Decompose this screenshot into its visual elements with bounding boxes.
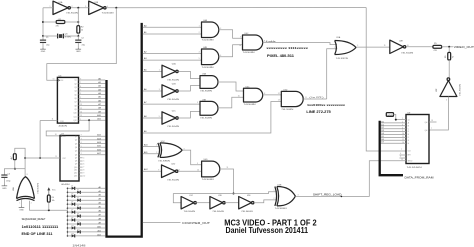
svg-text:A5: A5 <box>144 68 147 71</box>
wire U2F input from U9 <box>429 97 448 131</box>
wire net A12 to U2D <box>143 168 162 171</box>
net label DATA_FROM_RAM <box>405 177 434 180</box>
svg-text:A6: A6 <box>144 88 147 91</box>
svg-text:3: 3 <box>81 150 82 152</box>
svg-text:Q3: Q3 <box>74 87 76 89</box>
svg-text:9: 9 <box>80 79 81 81</box>
wire U3B out to U3C <box>218 95 244 108</box>
svg-text:6: 6 <box>80 86 81 88</box>
svg-text:47k: 47k <box>56 26 59 28</box>
svg-text:U2F: U2F <box>436 88 438 92</box>
svg-text:15: 15 <box>401 159 403 161</box>
svg-text:R6: R6 <box>445 56 447 58</box>
wire net A10 to U5C <box>143 144 160 147</box>
inverter U2A <box>162 63 180 82</box>
wire bus net D1 to U9 pin B <box>381 124 406 126</box>
svg-text:74LS166N: 74LS166N <box>407 167 423 169</box>
svg-text:U1D: U1D <box>218 195 222 197</box>
label PIXEL 480-511 <box>267 54 294 58</box>
svg-text:Q2: Q2 <box>74 83 76 85</box>
svg-text:Q8: Q8 <box>75 161 77 163</box>
svg-text:10: 10 <box>239 45 241 47</box>
svg-text:GND: GND <box>387 115 393 117</box>
svg-text:8: 8 <box>27 174 28 176</box>
and-gate U4C <box>239 33 265 54</box>
wire net A5 to U2A <box>143 68 162 71</box>
svg-text:C3: C3 <box>8 173 10 175</box>
wire SHIFT_REG_LOAD to U9 <box>341 159 406 196</box>
svg-text:DATA_FROM_RAM: DATA_FROM_RAM <box>405 177 434 180</box>
nand-gate U8A (74LS30 wide input) <box>12 174 39 201</box>
svg-text:Q13: Q13 <box>74 176 77 178</box>
svg-text:9: 9 <box>240 36 241 38</box>
wire reset net row <box>24 156 60 159</box>
svg-text:1: 1 <box>402 118 403 120</box>
wire bus net D0 to U9 pin A <box>381 121 406 123</box>
svg-text:SH/LD: SH/LD <box>408 161 414 163</box>
wire U1C out to U1D <box>196 202 210 204</box>
bus DATA_FROM_RAM <box>380 121 403 175</box>
svg-text:74LS86N: 74LS86N <box>275 208 288 210</box>
svg-text:U2B: U2B <box>172 83 177 85</box>
wire U2E out to R5 <box>406 46 432 48</box>
svg-text:U2E: U2E <box>399 40 404 42</box>
svg-text:14: 14 <box>80 111 82 113</box>
pin stub U9 QH output <box>429 120 437 122</box>
wire U6 Q8 to bus net A7 <box>79 103 106 106</box>
inverter U2D <box>162 164 180 182</box>
svg-text:LINE 272-275: LINE 272-275 <box>306 110 331 114</box>
wire net A1 to U4A <box>143 31 202 34</box>
ground GND C2 <box>76 48 82 53</box>
svg-text:R2: R2 <box>81 27 84 29</box>
diode D9 net A8 <box>67 217 106 221</box>
svg-text:1: 1 <box>20 202 21 204</box>
svg-text:Q4: Q4 <box>75 147 77 149</box>
wire R3 bottom <box>14 160 16 170</box>
svg-text:470: 470 <box>434 50 438 52</box>
wire U7 Q4 to bus net A15 <box>79 145 105 148</box>
svg-text:7: 7 <box>80 82 81 84</box>
svg-text:2: 2 <box>199 32 200 34</box>
svg-text:Q2: Q2 <box>75 140 77 142</box>
svg-text:3: 3 <box>159 89 160 91</box>
svg-text:ser: ser <box>408 119 411 121</box>
svg-text:13: 13 <box>278 100 280 102</box>
svg-text:H: H <box>408 143 410 145</box>
diode D7 net A6 <box>67 210 106 214</box>
svg-text:2: 2 <box>31 202 32 204</box>
diode D8 net A7 <box>67 213 106 217</box>
svg-text:D8: D8 <box>77 213 79 215</box>
svg-text:75: 75 <box>453 56 455 58</box>
pin stub U7 Q10 <box>79 167 84 169</box>
wire clock down right side to U9 CLK <box>366 8 406 152</box>
svg-text:Q7: Q7 <box>74 102 76 104</box>
wire U4D out down to delay tap <box>220 167 235 194</box>
pin stub U9 CLR <box>400 156 407 158</box>
wire U7 Q2 to bus net A13 <box>79 137 105 140</box>
svg-text:D4: D4 <box>77 198 79 200</box>
svg-text:9: 9 <box>197 163 198 165</box>
svg-text:7: 7 <box>83 167 84 169</box>
and-gate U3D <box>281 89 303 110</box>
wire delay chain top <box>173 190 277 194</box>
net label COUNTER_OUT <box>182 222 211 225</box>
svg-text:U1B: U1B <box>94 2 99 4</box>
and-gate U3C <box>244 86 266 106</box>
ground GND U8A input <box>19 206 25 211</box>
wire R6 to U2F <box>448 60 450 78</box>
svg-text:1k: 1k <box>81 30 83 32</box>
svg-text:Q4: Q4 <box>74 91 76 93</box>
svg-text:1xx0100xx xxxxxxxxx: 1xx0100xx xxxxxxxxx <box>307 103 345 107</box>
power symbol VCC pullup <box>47 187 56 195</box>
svg-text:Q5: Q5 <box>75 151 77 153</box>
svg-text:U3B: U3B <box>202 99 207 101</box>
shift register U9 (74LS166N) <box>406 113 429 169</box>
svg-text:11: 11 <box>402 136 404 138</box>
and-gate U4D <box>202 159 220 181</box>
svg-text:C: C <box>408 128 410 130</box>
wire C1 top <box>42 36 44 40</box>
svg-text:Q1: Q1 <box>75 136 77 138</box>
svg-text:D3: D3 <box>71 194 73 196</box>
wire U6 Q2 to bus net A1 <box>79 81 106 84</box>
diode D13 net A12 <box>67 233 106 237</box>
counter U6 (4040N) <box>57 75 78 127</box>
svg-text:Q12: Q12 <box>73 120 76 122</box>
inverter U1C <box>181 195 196 213</box>
wire U6 Q1 to bus net A0 <box>79 77 106 80</box>
inverter U2B <box>162 83 180 101</box>
svg-text:U4A: U4A <box>203 19 208 22</box>
svg-text:6: 6 <box>83 164 84 166</box>
svg-text:11: 11 <box>52 119 54 121</box>
title author Daniel Tufvesson 201411 <box>226 225 309 235</box>
svg-text:10k: 10k <box>52 200 55 202</box>
svg-text:Q1: Q1 <box>74 80 76 82</box>
resistor R4 pullup <box>47 195 54 202</box>
wire net A11 to U5C <box>143 151 160 154</box>
svg-text:9: 9 <box>197 102 198 104</box>
svg-text:Q12: Q12 <box>74 173 77 175</box>
svg-text:74LS04N: 74LS04N <box>241 211 253 213</box>
xor-gate U5B <box>275 185 299 211</box>
wire C1 bottom <box>42 43 44 48</box>
svg-text:4040N: 4040N <box>59 126 68 128</box>
svg-text:74LS32N: 74LS32N <box>336 58 349 60</box>
diode D1 net A0 <box>67 186 106 190</box>
wire U8A input stub 2 to pullup rail <box>30 201 68 212</box>
wire U1E out to U5B <box>254 198 277 203</box>
svg-text:D12: D12 <box>77 229 80 231</box>
svg-text:Q9: Q9 <box>75 164 77 166</box>
svg-text:5: 5 <box>199 58 200 60</box>
svg-text:A8: A8 <box>144 115 147 118</box>
wire U6 Q10 to bus net A9 <box>79 110 106 113</box>
svg-text:5: 5 <box>83 161 84 163</box>
pin stub U7 Q12 <box>79 173 84 175</box>
svg-text:2: 2 <box>156 152 157 154</box>
svg-text:13: 13 <box>431 120 433 122</box>
svg-text:12: 12 <box>80 108 82 110</box>
svg-text:U1E: U1E <box>247 195 251 197</box>
wire bus net D2 to U9 pin C <box>381 127 406 129</box>
svg-text:3: 3 <box>402 124 403 126</box>
svg-text:74LS04N: 74LS04N <box>460 83 462 96</box>
and-gate U3A <box>200 73 218 93</box>
svg-text:GND: GND <box>2 188 7 190</box>
svg-text:74LS08N: 74LS08N <box>200 117 213 119</box>
svg-text:4: 4 <box>80 100 81 102</box>
label pixel compare bits <box>266 46 308 50</box>
wire COUNTER_OUT <box>143 222 181 224</box>
svg-text:1: 1 <box>159 70 160 72</box>
wire U6 Q12 to bus net A11 <box>79 118 106 122</box>
svg-text:74LS08N: 74LS08N <box>202 67 215 69</box>
ground GND C1 <box>40 48 46 53</box>
pin stub U7 Q13 <box>79 176 85 178</box>
svg-text:A3: A3 <box>144 57 147 60</box>
wire U8A output vertical <box>24 158 26 177</box>
net label VIDEO_OUT <box>454 45 474 49</box>
svg-text:10: 10 <box>402 133 404 135</box>
wire U3D out up to U5A input 2 <box>327 47 338 99</box>
svg-text:10: 10 <box>55 134 57 136</box>
svg-text:1: 1 <box>80 119 81 121</box>
svg-text:U1C: U1C <box>189 195 193 197</box>
svg-text:1: 1 <box>199 25 200 27</box>
svg-text:A2: A2 <box>144 51 147 54</box>
wire U3D out to U5A line gate <box>303 97 327 99</box>
svg-text:74LS08N: 74LS08N <box>200 91 213 93</box>
wire C2 top <box>77 36 79 40</box>
wire U3A out to U3C <box>218 82 244 91</box>
svg-text:74LS08N: 74LS08N <box>202 179 215 181</box>
svg-text:G: G <box>408 140 410 142</box>
resistor R3 <box>11 154 16 160</box>
svg-text:74LS04N: 74LS04N <box>401 53 414 55</box>
svg-text:C2: C2 <box>81 38 84 40</box>
diode D12 net A11 <box>67 229 106 233</box>
crystal Q0 <box>58 33 72 38</box>
svg-text:QH: QH <box>425 130 428 132</box>
diode D6 net A5 <box>67 206 106 210</box>
wire net A8 to U2C <box>143 115 162 118</box>
svg-text:D7: D7 <box>71 210 73 212</box>
svg-text:9: 9 <box>83 173 84 175</box>
svg-text:A10: A10 <box>144 144 149 147</box>
svg-text:U3A: U3A <box>202 73 207 76</box>
svg-text:VIDEO_OUT: VIDEO_OUT <box>454 45 474 49</box>
wire R1 right <box>65 21 79 23</box>
svg-text:F: F <box>408 137 409 139</box>
svg-text:1: 1 <box>274 190 275 192</box>
wire U2C out to U3B <box>178 112 200 119</box>
wire C3 branch <box>4 169 14 175</box>
or-gate U5A <box>335 36 359 60</box>
svg-text:D1: D1 <box>381 124 383 126</box>
svg-text:INH: INH <box>408 155 412 157</box>
wire clock down to U6 <box>47 8 117 81</box>
svg-text:U3D: U3D <box>283 89 288 91</box>
svg-text:U4D: U4D <box>204 159 209 161</box>
inverter U1D <box>210 195 225 213</box>
svg-text:10: 10 <box>53 78 55 80</box>
pin stub U7 Q7 <box>79 157 84 159</box>
wire GND box to U9 ser <box>394 115 407 121</box>
svg-text:U1A: U1A <box>59 1 64 4</box>
wire U6 Q12 to U7 clock <box>46 120 89 136</box>
wire U7 Q5 to bus net A16 <box>79 148 105 151</box>
svg-text:Q9: Q9 <box>74 109 76 111</box>
wire diode anode rail <box>67 188 69 236</box>
wire U7 Q6 to bus net A17 <box>79 152 105 155</box>
svg-text:SEQUENCER_RESET: SEQUENCER_RESET <box>22 217 46 221</box>
counter U7 (4040N) <box>60 133 79 185</box>
svg-text:74LS04N: 74LS04N <box>167 99 180 101</box>
svg-text:47p: 47p <box>46 45 50 47</box>
wire U5B out SHIFT_REG_LOAD <box>295 196 342 198</box>
svg-text:END OF LINE 311: END OF LINE 311 <box>22 232 53 236</box>
wire U6 Q11 to bus net A10 <box>79 114 106 117</box>
svg-text:6: 6 <box>400 153 401 155</box>
svg-text:8 MHz: 8 MHz <box>65 36 72 38</box>
svg-text:CLK: CLK <box>60 80 64 82</box>
svg-text:C1: C1 <box>46 37 49 39</box>
diode D3 net A2 <box>67 194 106 198</box>
svg-text:7: 7 <box>431 128 432 130</box>
resistor R6 <box>445 52 454 60</box>
svg-text:D5: D5 <box>71 202 73 204</box>
inverter U2F vertical <box>436 78 462 101</box>
svg-text:2: 2 <box>402 122 403 124</box>
svg-text:Q11: Q11 <box>74 116 77 118</box>
diode D5 net A4 <box>67 202 106 206</box>
capacitor C3 <box>1 173 10 182</box>
wire U7 Q1 to bus net A12 <box>79 134 105 137</box>
diode D11 net A10 <box>67 225 106 229</box>
svg-text:Q10: Q10 <box>73 113 76 115</box>
svg-text:4: 4 <box>83 157 84 159</box>
svg-text:Q10: Q10 <box>74 167 77 169</box>
net label SEQUENCER_RESET <box>22 217 46 221</box>
label reset compare bits <box>22 225 59 229</box>
svg-text:GND: GND <box>76 51 81 53</box>
pin stub U7 Q8 <box>79 161 84 163</box>
svg-text:COUNTER_OUT: COUNTER_OUT <box>182 222 211 225</box>
title MC3 VIDEO - PART 1 OF 2 <box>224 217 317 227</box>
svg-text:4: 4 <box>199 52 200 54</box>
svg-text:Q6: Q6 <box>74 98 76 100</box>
svg-text:Q7: Q7 <box>75 158 77 160</box>
wire bus net D5 to U9 pin F <box>381 136 406 138</box>
svg-text:74LS04N: 74LS04N <box>102 13 115 15</box>
svg-text:5: 5 <box>446 99 447 101</box>
svg-text:D6: D6 <box>381 139 383 141</box>
svg-text:Q8: Q8 <box>74 105 76 107</box>
svg-text:U2D: U2D <box>171 164 176 166</box>
svg-text:11: 11 <box>384 45 386 47</box>
svg-text:U3C: U3C <box>246 86 251 88</box>
svg-text:xxxxxxxxx 1111xxxxx: xxxxxxxxx 1111xxxxx <box>266 46 308 50</box>
pin stub U7 Q11 <box>79 170 84 172</box>
svg-text:D2: D2 <box>77 190 79 192</box>
resistor R5 <box>433 43 442 52</box>
wire U5C out to U4D <box>182 150 201 165</box>
svg-text:A0: A0 <box>144 24 147 27</box>
pin stub U7 Q9 <box>79 164 84 166</box>
svg-text:4 mHz: 4 mHz <box>266 41 276 43</box>
wire U6 Q9 to bus net A8 <box>79 107 106 110</box>
svg-text:D2: D2 <box>381 127 383 129</box>
wire U6 Q4 to bus net A3 <box>79 88 106 91</box>
wire U2A out to U3A <box>178 71 200 78</box>
svg-text:12: 12 <box>278 93 280 95</box>
wire bus net D4 to U9 pin E <box>381 133 406 135</box>
wire U2D out to U4D <box>178 169 202 171</box>
svg-text:D4: D4 <box>381 133 383 135</box>
svg-text:74LS30N: 74LS30N <box>38 182 40 194</box>
svg-text:( Ln 272 ): ( Ln 272 ) <box>310 97 324 99</box>
resistor R2 <box>77 26 84 34</box>
wire U4B out to U4C <box>219 45 243 57</box>
wire C3 bottom <box>3 178 5 185</box>
svg-text:47p: 47p <box>82 45 86 47</box>
wire net A2 to U4B <box>143 51 202 54</box>
svg-text:5: 5 <box>402 130 403 132</box>
svg-text:8: 8 <box>83 170 84 172</box>
wire U1A output to U1B <box>71 7 89 9</box>
capacitor C1 <box>40 37 51 47</box>
svg-text:A1: A1 <box>144 31 147 34</box>
svg-text:D7: D7 <box>381 142 383 144</box>
svg-text:D10: D10 <box>77 221 80 223</box>
svg-text:74LS08N: 74LS08N <box>281 109 294 111</box>
inverter U1A <box>50 1 79 15</box>
svg-text:D6: D6 <box>77 206 79 208</box>
svg-text:U5C: U5C <box>161 141 166 143</box>
svg-text:15: 15 <box>80 115 82 117</box>
svg-text:74LS08N: 74LS08N <box>202 40 215 42</box>
svg-text:9: 9 <box>400 156 401 158</box>
svg-text:QH: QH <box>425 122 428 124</box>
wire U2B out to U3A <box>178 86 200 91</box>
wire U6 Q7 to bus net A6 <box>79 99 106 102</box>
wire U5A out to U2E <box>356 45 390 47</box>
wire net A0 to U4A <box>143 24 202 27</box>
svg-text:U5B: U5B <box>277 185 282 187</box>
svg-text:Q11: Q11 <box>74 170 77 172</box>
svg-text:B: B <box>408 125 410 127</box>
svg-text:D3: D3 <box>381 130 383 132</box>
wire RC node to gate output <box>15 168 25 170</box>
wire bus net D6 to U9 pin G <box>381 139 406 141</box>
wire U6 RST pin 11 <box>40 119 57 121</box>
wire U3C out to U3D <box>263 93 282 95</box>
svg-text:D: D <box>408 131 410 133</box>
svg-text:74LS04N: 74LS04N <box>66 13 79 15</box>
and-gate U4A <box>202 19 222 42</box>
svg-text:5: 5 <box>81 146 82 148</box>
svg-text:9: 9 <box>81 135 82 137</box>
svg-text:PIXEL 480-511: PIXEL 480-511 <box>267 54 294 58</box>
svg-text:3: 3 <box>80 93 81 95</box>
svg-text:D1: D1 <box>71 186 73 188</box>
svg-text:CLK: CLK <box>408 151 412 153</box>
svg-text:2: 2 <box>335 47 336 49</box>
